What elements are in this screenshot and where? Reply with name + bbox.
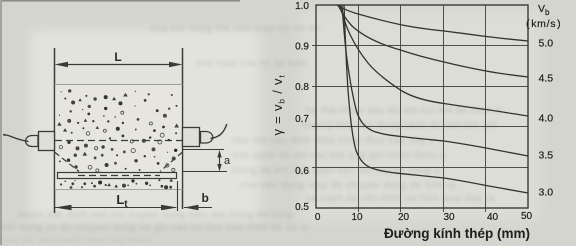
svg-text:5.0: 5.0 (539, 38, 554, 50)
svg-text:a: a (224, 155, 231, 167)
svg-text:4.0: 4.0 (539, 113, 554, 125)
svg-text:0: 0 (315, 212, 321, 223)
svg-text:20: 20 (398, 212, 410, 223)
svg-text:Vb: Vb (538, 3, 550, 17)
svg-text:50: 50 (521, 211, 533, 222)
svg-text:L: L (114, 50, 121, 64)
svg-text:(km/s): (km/s) (526, 18, 561, 30)
svg-text:0.5: 0.5 (295, 202, 309, 213)
svg-text:0.6: 0.6 (295, 166, 309, 177)
svg-text:γ = vb / vt: γ = vb / vt (270, 74, 287, 135)
svg-text:Đường kính thép (mm): Đường kính thép (mm) (384, 226, 530, 241)
svg-text:0.8: 0.8 (295, 82, 309, 93)
svg-text:0.9: 0.9 (295, 42, 309, 53)
svg-text:1.0: 1.0 (295, 1, 309, 12)
svg-text:3.0: 3.0 (539, 187, 554, 199)
svg-text:30: 30 (443, 212, 455, 223)
svg-text:0.7: 0.7 (295, 114, 309, 125)
svg-text:b: b (202, 191, 209, 205)
svg-text:10: 10 (351, 212, 363, 223)
svg-text:4.5: 4.5 (539, 73, 554, 85)
svg-text:40: 40 (487, 212, 499, 223)
svg-text:3.5: 3.5 (539, 150, 554, 162)
